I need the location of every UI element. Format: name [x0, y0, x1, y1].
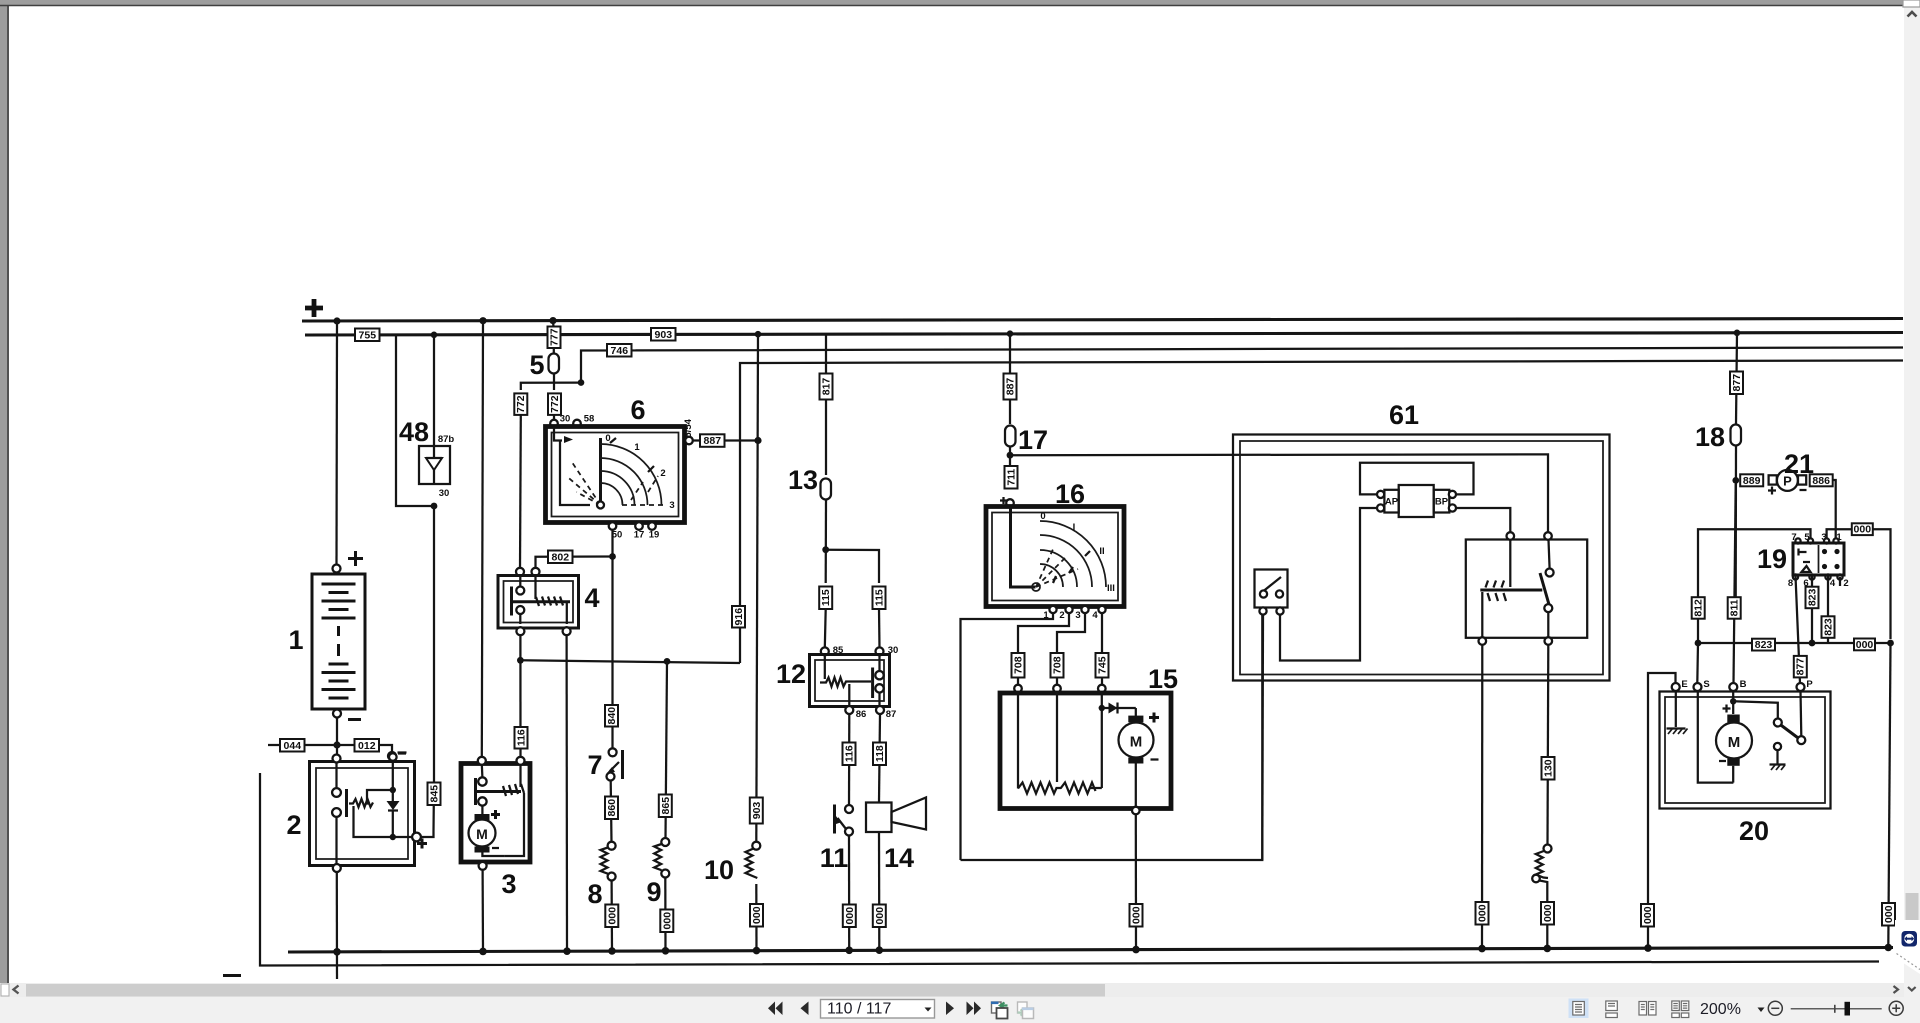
- wire: regulator 2 to ground bus and tail: [336, 872, 338, 979]
- node: 823 rail at ground drop: [1887, 640, 1894, 647]
- wire 802 label: [548, 551, 573, 564]
- wire 044 label: [280, 739, 305, 752]
- fuse 17 capsule: [1005, 426, 1016, 447]
- glow plug 9 top terminal: [661, 838, 669, 846]
- BP bottom terminal: [1449, 504, 1456, 511]
- plus terminal of supply bus: [305, 299, 323, 317]
- wire: solenoid 3 coil return to motor minus: [505, 793, 524, 856]
- wire: fuel gauge B feed continues down: [1734, 484, 1736, 683]
- heater switch 16 terminal 4: [1098, 606, 1105, 613]
- svg-text:000: 000: [844, 907, 856, 925]
- svg-text:19: 19: [649, 530, 660, 541]
- wire: long feed to relay in unit 61: [1010, 454, 1548, 533]
- node: battery negative junction: [333, 741, 340, 748]
- blower unit 15 terminal a: [1014, 685, 1022, 693]
- svg-text:9: 9: [646, 877, 661, 907]
- svg-text:M: M: [1728, 734, 1741, 751]
- wire: sensor 21 output to unit 19 terminal 1: [1833, 480, 1836, 538]
- starter motor M of 3: [469, 814, 496, 853]
- wire: terminal 3 jog down: [1057, 613, 1085, 653]
- relay 4 top-left terminal: [516, 568, 524, 576]
- ignition switch 6 housing: [546, 427, 685, 523]
- node inside regulator 2: [390, 787, 396, 793]
- svg-text:903: 903: [751, 802, 763, 820]
- wire 012 label: [355, 739, 380, 752]
- regulator 2 contact terminal lower: [332, 808, 341, 817]
- plus mark at heater switch input: [1000, 497, 1007, 504]
- output terminal D+ of regulator 2: [412, 833, 421, 842]
- svg-text:58: 58: [584, 414, 595, 425]
- glow plug 8 bottom terminal: [608, 873, 616, 881]
- wire 708 label b: [1051, 653, 1064, 678]
- wire 916 label on bus 4 drop: [732, 606, 745, 628]
- svg-text:S: S: [1703, 679, 1709, 690]
- node: wire 887 tap on bus 2: [1007, 330, 1014, 337]
- heater switch 16 housing: [986, 507, 1124, 607]
- diode unit 48: drop wire from bus 2: [433, 335, 435, 446]
- node: wire 887 joins wire 755 drop: [754, 437, 761, 444]
- wiper relay top-left terminal: [1507, 532, 1515, 540]
- switch 11 lower contact: [845, 828, 853, 836]
- switch 7 symbol: [607, 750, 623, 779]
- wire: bus line 4: [740, 361, 1903, 664]
- relay 12 terminal 87: [876, 706, 884, 714]
- node: ground of right drop: [1885, 944, 1893, 952]
- node: ground of heated window: [1544, 945, 1552, 953]
- heater switch 16 terminal 3: [1081, 606, 1088, 613]
- ignition switch 6: terminal 58: [573, 420, 581, 428]
- wire: into relay 12 terminal 30: [878, 609, 881, 648]
- svg-text:12: 12: [776, 659, 806, 689]
- wire 772 label right branch: [548, 393, 561, 415]
- svg-text:M: M: [476, 826, 488, 842]
- gauge unit 19 housing: [1793, 543, 1844, 575]
- wire: left 772 branch down to relay 4: [519, 415, 522, 568]
- diode 48 box: [419, 446, 450, 484]
- sender 10 coil: [746, 849, 758, 879]
- svg-text:30: 30: [439, 488, 450, 499]
- sender 20: contact ground stub: [1770, 750, 1786, 770]
- wire 845 label: [428, 783, 441, 806]
- wire: from minus terminal into regulator: [392, 760, 394, 790]
- wire: solenoid 3 coil leg from top-right terminal: [519, 764, 521, 787]
- svg-text:000: 000: [751, 906, 763, 924]
- svg-text:755: 755: [359, 329, 377, 341]
- svg-text:903: 903: [655, 329, 673, 341]
- wire: terminal 6 down to 823 rail: [1811, 576, 1813, 643]
- wire 116 label on switch 11 wire: [843, 743, 856, 766]
- svg-text:916: 916: [733, 608, 745, 626]
- wire: 708b into resistor pack: [1056, 678, 1058, 686]
- svg-text:772: 772: [515, 395, 527, 413]
- ignition switch 6: terminal 50: [609, 522, 617, 530]
- svg-text:823: 823: [1755, 639, 1773, 651]
- svg-text:823: 823: [1806, 588, 1818, 606]
- relay 4 bottom-left terminal: [516, 627, 524, 635]
- node: ground of switch 11: [845, 947, 853, 955]
- svg-text:1: 1: [634, 442, 640, 453]
- wire 115 label right: [873, 587, 886, 610]
- sender 10 top terminal: [752, 842, 760, 850]
- svg-text:87: 87: [886, 709, 897, 720]
- solenoid 3 top-right terminal: [517, 757, 525, 765]
- blower resistor pack zigzags: [1018, 782, 1102, 794]
- wire: 823 rail: [1698, 642, 1891, 644]
- wire 130 label: [1542, 757, 1555, 780]
- wire: bus line 2: [305, 333, 1903, 336]
- control unit 61 inner housing: [1240, 441, 1603, 675]
- node: diode tap inside 15: [1099, 705, 1105, 711]
- wire 777 label: [548, 327, 561, 349]
- node: 823 rail at terminal 6 wire: [1809, 640, 1816, 647]
- wire 903 label: [651, 328, 676, 341]
- svg-text:4: 4: [584, 583, 599, 613]
- wire: main ground bus: [288, 948, 1893, 953]
- node: wire 755 tap on bus 2: [755, 331, 762, 338]
- heater switch 16 terminal 2: [1065, 606, 1072, 613]
- regulator 2 contact terminal upper: [332, 788, 341, 797]
- wire 802 to relay 4: [536, 557, 613, 569]
- node: 823 rail at S wire: [1695, 640, 1702, 647]
- regulator 2 bottom terminal: [333, 864, 341, 872]
- glow plug 8 top terminal: [608, 842, 616, 850]
- wire 877 label on P wire: [1794, 656, 1807, 678]
- svg-text:877: 877: [1731, 374, 1743, 392]
- svg-text:14: 14: [884, 843, 914, 873]
- wire 000 label lower right: [1854, 639, 1875, 651]
- switch 7 top contact: [609, 748, 617, 756]
- wire: regulator 2 contact down to ground bus: [335, 817, 337, 869]
- wire: glow plug 8 to ground: [610, 881, 613, 952]
- wire 860 label: [605, 797, 618, 820]
- horn 14: [866, 798, 926, 833]
- unit 19 pin 2 stub: [1839, 577, 1841, 586]
- wire: fuse 5 down to tee: [553, 374, 555, 391]
- unit 19 bottom pin circles: [1793, 574, 1798, 579]
- solenoid 3 armature bar: [477, 790, 521, 793]
- battery B1 bottom terminal: [333, 710, 341, 718]
- wiper switch contacts: [1260, 577, 1283, 598]
- wire 903 label on sender 10 wire: [750, 798, 763, 824]
- unit 19 top pin circles: [1795, 538, 1800, 543]
- svg-text:811: 811: [1729, 599, 1741, 616]
- wire: relay top-right to pivot: [1549, 540, 1550, 569]
- ground wire 000 label of 15: [1130, 904, 1143, 927]
- wire: relay 4 output down to solenoid 3: [519, 635, 521, 757]
- sender 20: lever end contact: [1797, 736, 1805, 744]
- svg-text:2: 2: [286, 810, 301, 840]
- ignition switch 6: terminal 15/54: [685, 437, 693, 445]
- voltage regulator 2 (component 2) box: [310, 762, 415, 866]
- svg-text:772: 772: [549, 395, 561, 413]
- wire: terminal 50 down: [611, 530, 613, 751]
- svg-text:1: 1: [288, 625, 303, 655]
- node: fuse 17 output tee: [1007, 452, 1014, 459]
- svg-text:11: 11: [820, 843, 849, 873]
- wire 877 label on gauge feed: [1730, 372, 1743, 395]
- wire 811 label: [1728, 597, 1741, 619]
- wire: element to ground: [1540, 881, 1548, 950]
- wire: S wire lower segment: [1696, 643, 1699, 683]
- blower 15 internals: feed wires: [1018, 692, 1102, 788]
- wire: frame line below ground bus: [260, 773, 1879, 966]
- svg-text:2: 2: [660, 468, 665, 479]
- svg-text:17: 17: [1018, 425, 1048, 455]
- blower unit 15 terminal b: [1053, 685, 1061, 693]
- svg-text:115: 115: [874, 589, 886, 606]
- BP top terminal: [1449, 491, 1456, 498]
- svg-text:3: 3: [1075, 610, 1080, 621]
- svg-text:886: 886: [1812, 475, 1830, 487]
- fuse 5: drop from bus 1: [552, 321, 555, 327]
- node: starter wire tap on bus 1: [479, 317, 486, 324]
- AP bottom terminal: [1377, 504, 1384, 511]
- svg-text:15: 15: [1148, 664, 1178, 694]
- svg-text:000: 000: [1477, 904, 1489, 922]
- wire 012 branch right: [337, 745, 392, 752]
- relay 12 terminal 30: [876, 647, 884, 655]
- node: choke wire tap: [664, 658, 671, 665]
- wire: branch to contact 30 of relay 12: [826, 550, 879, 583]
- minus mark near regulator 2: [398, 752, 406, 754]
- wire: glow plug 9 to ground: [664, 878, 666, 951]
- svg-text:000: 000: [1883, 905, 1895, 923]
- relay 4 bottom-right terminal: [563, 627, 571, 635]
- sender unit 20: terminal S: [1694, 683, 1702, 691]
- svg-text:865: 865: [660, 797, 672, 815]
- ignition switch 6: terminal 19: [648, 522, 656, 530]
- regulator 2 top terminal: [333, 755, 341, 763]
- wire 115 label left: [819, 587, 832, 610]
- ignition switch 6 internals: [554, 428, 666, 509]
- wire: relay output down to heated window: [1546, 645, 1549, 845]
- solenoid 3 top-left terminal: [478, 757, 486, 765]
- svg-text:2: 2: [1059, 610, 1064, 621]
- node: diode 48 tap on bus 2: [431, 332, 438, 339]
- battery minus sign: [348, 718, 361, 721]
- diode inside regulator 2: [387, 790, 400, 837]
- svg-text:116: 116: [515, 729, 527, 746]
- svg-text:708: 708: [1013, 656, 1025, 674]
- minus mark of sender motor: [1719, 760, 1726, 762]
- svg-text:7: 7: [587, 750, 602, 780]
- relay 12 internals: [820, 655, 884, 707]
- wire: fuse 17 to node: [1009, 447, 1011, 467]
- relay 4 housing: [498, 576, 579, 629]
- svg-text:877: 877: [1795, 658, 1807, 676]
- wiper relay coil and armature: [1480, 540, 1542, 601]
- wire 745 label: [1096, 653, 1109, 678]
- wire: terminal 2 jog down: [1018, 613, 1069, 653]
- svg-text:I: I: [1073, 522, 1076, 533]
- relay 4 top-right terminal: [532, 568, 540, 576]
- svg-text:000: 000: [1856, 639, 1874, 651]
- svg-text:817: 817: [821, 378, 833, 396]
- wire 708 label a: [1012, 653, 1025, 678]
- wire: switch 11 to ground: [848, 836, 850, 951]
- wire 812 label on S wire: [1692, 597, 1705, 619]
- wire 865 label: [659, 795, 672, 818]
- svg-text:044: 044: [284, 740, 302, 752]
- sender 20: B wire and branch: [1730, 691, 1778, 719]
- wire: P terminal down to lever: [1799, 691, 1802, 736]
- svg-text:823: 823: [1822, 618, 1834, 636]
- svg-text:BP: BP: [1435, 497, 1449, 508]
- solenoid 3 contact circle upper: [478, 777, 486, 785]
- wire 817 label: [820, 374, 833, 400]
- sender 20: lever pivot: [1774, 719, 1782, 727]
- svg-text:745: 745: [1097, 656, 1109, 674]
- svg-text:860: 860: [606, 799, 618, 817]
- wire: terminal 4 down: [1101, 613, 1103, 653]
- wire: contact to starter motor: [481, 806, 483, 815]
- wire: E terminal up-and-over to ground: [1648, 673, 1676, 949]
- wire 889 label: [1740, 474, 1763, 487]
- wire: relay 12 terminal 87 down to horn 14: [879, 714, 880, 802]
- node: ground of sender 10: [753, 947, 761, 955]
- wire: coil return down: [1481, 592, 1483, 638]
- solenoid 3 fixed contact bar: [474, 778, 477, 805]
- svg-text:130: 130: [1543, 759, 1555, 777]
- glow plug 9 heater coil: [654, 844, 661, 870]
- starter motor M of 3: plus mark: [491, 810, 500, 819]
- svg-text:20: 20: [1739, 816, 1769, 846]
- node: tee above relay 12: [822, 546, 829, 553]
- wire: branch from 755 down to diode 48 output: [380, 335, 435, 506]
- glow plug 8 heater coil: [601, 848, 608, 874]
- svg-text:61: 61: [1389, 400, 1419, 430]
- minus mark of starter motor: [492, 847, 499, 849]
- svg-text:8: 8: [1788, 578, 1793, 589]
- sender 20: S wire to motor minus: [1698, 691, 1734, 783]
- wire 711 label: [1005, 466, 1018, 489]
- svg-text:B: B: [1740, 679, 1747, 690]
- fuse 18 capsule: [1731, 425, 1742, 446]
- node: ground of plug 8: [608, 947, 616, 955]
- svg-text:E: E: [1681, 679, 1687, 690]
- ignition switch 6: terminal 17: [635, 522, 643, 530]
- svg-text:118: 118: [874, 745, 886, 762]
- svg-text:30: 30: [560, 414, 571, 425]
- wire: blower 15 to ground bus: [1135, 814, 1137, 950]
- svg-text:000: 000: [1854, 524, 1872, 536]
- svg-text:13: 13: [788, 465, 818, 495]
- wire: blower motor minus to ground: [1135, 764, 1137, 807]
- relay 12 terminal 86: [845, 706, 853, 714]
- wire 823 label vertical b: [1822, 616, 1835, 638]
- wire: from bus2 tap 755 down to sender 10: [756, 334, 758, 842]
- svg-text:87b: 87b: [438, 434, 455, 445]
- svg-text:887: 887: [1005, 378, 1017, 396]
- sender 20: float lever: [1781, 725, 1799, 739]
- wire: relay 12 terminal 86 down to switch 11: [848, 714, 851, 805]
- wire: heater feed from bus 2 tap down: [1009, 334, 1011, 424]
- switch 7 bottom contact: [607, 773, 615, 781]
- blower motor M of 15: [1119, 708, 1154, 764]
- sender unit 20: terminal E: [1672, 683, 1680, 691]
- wire 887 label on heater feed: [1004, 374, 1017, 400]
- heater switch 16 internals: [1011, 507, 1107, 591]
- wire: bus line 3: [581, 348, 1903, 383]
- svg-text:19: 19: [1757, 544, 1787, 574]
- wiper switch bottom terminal left: [1259, 607, 1266, 614]
- wire: right 772 branch to ignition switch 30: [553, 415, 555, 420]
- fuse 5 capsule: [549, 348, 560, 374]
- battery B1 top terminal: [333, 565, 341, 573]
- wire: long return along bottom to unit 61: [961, 614, 1263, 860]
- wire: flasher feed from bus 2 tap down to relay 12: [825, 334, 827, 475]
- minus mark of blower motor: [1151, 758, 1159, 760]
- minus mark at 012 terminal: [398, 751, 407, 753]
- node: battery tap on bus 1: [333, 317, 340, 324]
- ground wire 000 label of E: [1641, 904, 1654, 927]
- wire: into relay 12 terminal 85: [824, 609, 827, 648]
- svg-text:5: 5: [529, 350, 544, 380]
- wire inside 3: battery post down: [481, 764, 484, 778]
- node: wire 802 tee: [609, 553, 616, 560]
- solenoid 3 contact circle lower: [478, 797, 486, 805]
- wire: gauge feed from bus 2 tap down: [1736, 333, 1737, 424]
- terminal circle of wire 012: [388, 752, 396, 760]
- svg-text:000: 000: [874, 907, 886, 925]
- node: ground of relay 4 coil: [563, 947, 571, 955]
- solenoid 3 coil ticks: [503, 784, 524, 796]
- wire: bottom rail inside regulator 2: [354, 806, 417, 837]
- ground wire 000 label of 14: [873, 905, 886, 928]
- wire: S terminal link to unit 19 terminal 5: [1698, 529, 1811, 643]
- heated window element bottom terminal: [1532, 875, 1540, 883]
- wire 000 label upper right: [1852, 523, 1873, 535]
- ground wire 000 label of element: [1541, 902, 1554, 925]
- node: ground of solenoid 3: [479, 948, 487, 956]
- wire: horn 14 to ground: [878, 832, 881, 950]
- wire: lever contact down: [1547, 612, 1549, 638]
- wire: coil to diode node inside 2: [367, 790, 393, 804]
- wiper relay bottom-left terminal: [1479, 637, 1487, 645]
- node on bottom rail of 2: [390, 834, 396, 840]
- svg-text:2: 2: [1843, 578, 1848, 589]
- node: ground of plug 9: [662, 947, 670, 955]
- wire: relay coil leg to ground: [1481, 645, 1484, 949]
- wire: solenoid 3 to ground bus: [481, 870, 484, 952]
- wire 772 label left branch: [514, 393, 527, 415]
- fuse 13 capsule: [821, 479, 832, 500]
- blower unit 15 terminal c: [1098, 685, 1106, 693]
- svg-text:711: 711: [1006, 469, 1018, 486]
- wire: starter motor to bottom terminal: [482, 853, 504, 857]
- heater switch 16 input terminal: [1006, 499, 1014, 507]
- svg-text:P: P: [1783, 474, 1792, 489]
- wire: 745 into resistor pack: [1101, 678, 1103, 686]
- gauge unit 19 internals: [1799, 545, 1840, 573]
- svg-text:18: 18: [1695, 422, 1725, 452]
- glow plug 9 bottom terminal: [661, 870, 669, 878]
- svg-text:4: 4: [1092, 610, 1098, 621]
- wire: starter feed from bus 1 down to solenoid 3: [482, 321, 483, 757]
- wiper park unit (AP/BP): [1384, 485, 1449, 517]
- wire: battery positive drop from bus 1: [335, 321, 338, 565]
- wire: terminal 15/54 to wire 887: [693, 439, 758, 441]
- diode inside blower 15: [1102, 703, 1136, 714]
- ground wire 000 label of 10: [750, 904, 763, 927]
- node: diode 48 output junction: [431, 503, 438, 510]
- regulator 2 coil: [349, 799, 373, 807]
- wire: terminal 8 down to P terminal: [1796, 576, 1801, 683]
- wire 116 label below relay 4: [515, 727, 528, 749]
- wire: unit 19 terminal 3 up and over to ground drop: [1827, 529, 1891, 639]
- svg-text:000: 000: [1131, 906, 1143, 924]
- ignition switch 6: terminal 30: [550, 420, 558, 428]
